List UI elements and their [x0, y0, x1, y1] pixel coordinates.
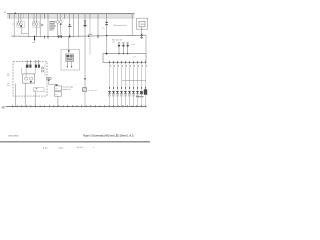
LED pin number labels	[110, 65, 147, 66]
vertical label strip	[44, 64, 46, 76]
pedal stub 2 arrow	[71, 66, 73, 68]
wire to S2 a	[33, 14, 35, 23]
wire color legend line 4	[49, 27, 54, 29]
ground G2 bar 1	[140, 37, 143, 39]
junction tick J0a	[44, 36, 46, 39]
junction dot pedal top	[68, 50, 70, 52]
fuse F1 bottom bar	[83, 25, 86, 27]
connector pin P1 arrow	[34, 39, 36, 41]
solenoid Y2 lead	[122, 43, 124, 54]
LED diodes row	[108, 91, 143, 94]
junction tick J1	[58, 35, 60, 37]
switch S2 contact b	[35, 23, 38, 26]
junction tick J2	[60, 35, 62, 37]
mid rail long wire	[11, 35, 146, 36]
ground bus line	[6, 106, 147, 108]
connector block on PCB	[56, 84, 58, 86]
junction tick J4	[88, 35, 90, 37]
relay K1 coil b	[30, 77, 33, 80]
switch S2 contact a	[33, 23, 36, 26]
fuse F1 tick	[84, 26, 86, 28]
fuse block pad 4	[38, 65, 40, 68]
wire drop x40	[39, 14, 41, 38]
svg-text:xxx: xxx	[7, 73, 10, 75]
svg-text:xxx: xxx	[7, 75, 10, 77]
svg-text:xxx: xxx	[55, 88, 58, 90]
solenoid Y3 plate	[127, 45, 129, 47]
wire to S1 b	[20, 14, 22, 23]
svg-text:TS10: TS10	[140, 24, 145, 26]
solenoid Y1 plate	[118, 45, 120, 47]
wire pad1 down	[25, 68, 27, 77]
pedal stub 2	[71, 61, 73, 66]
svg-text:xxx: xxx	[7, 85, 10, 87]
svg-text:xx: xx	[44, 91, 46, 93]
pedal unit box	[61, 50, 80, 70]
junction dot S3	[60, 24, 62, 26]
chevron arrows 2	[41, 70, 44, 72]
junction dot rail x106	[106, 35, 107, 36]
connector X1 circle b	[49, 77, 51, 79]
fuse block pad 1	[26, 65, 29, 68]
solenoid Y3 lead	[127, 43, 129, 54]
crossing wire right	[122, 79, 146, 81]
power bus shaded band	[7, 14, 135, 18]
wire to S1 a	[17, 14, 19, 23]
wire drop x73	[73, 14, 75, 38]
svg-text:xxxx: xxxx	[133, 56, 136, 58]
LED labels row	[108, 95, 139, 97]
LED second right blob	[140, 91, 143, 94]
svg-text:x 4 x 5: x 4 x 5	[77, 147, 84, 149]
regulator dark pad 3	[67, 58, 73, 60]
svg-text:xxxx: xxxx	[32, 42, 35, 44]
LED junction ticks	[110, 87, 146, 88]
wire to S2 b	[36, 14, 38, 23]
solenoid Y1 top bar	[118, 42, 120, 44]
wire stub x44	[44, 14, 46, 19]
wire drop x85 long	[84, 14, 86, 88]
wire to S3 a	[57, 14, 59, 21]
ground G1 arrow	[69, 24, 71, 26]
junction dot node B	[141, 34, 143, 36]
connector X1 circle a	[46, 77, 48, 79]
svg-text:x: x	[75, 84, 76, 86]
wire from S2 down	[36, 26, 38, 38]
connector housing box	[137, 18, 148, 29]
wire from S3 b down	[60, 24, 62, 38]
relay K1 coil a	[25, 77, 28, 80]
wire drop x90	[89, 14, 91, 55]
svg-text:PE: PE	[2, 106, 6, 109]
wire buzzer to ground bus	[84, 91, 86, 106]
buzzer H1 hatch	[83, 88, 86, 91]
svg-text:xxx xxxx xx: xxx xxxx xx	[88, 90, 97, 92]
wire color legend line 5	[49, 29, 54, 31]
wire drop x48	[47, 14, 49, 38]
ground bus hatch ticks	[13, 105, 146, 107]
LED label bar right	[136, 95, 144, 98]
power bus band lower edge	[7, 17, 135, 19]
svg-text:xxx: xxx	[12, 24, 15, 26]
regulator dark pad 1	[67, 55, 70, 57]
footer rule	[0, 140, 150, 143]
ground G1 bar	[68, 25, 71, 27]
svg-text:xxx: xxx	[7, 83, 10, 85]
fuse F1 top bar	[84, 20, 87, 22]
wire pad3 down	[34, 68, 36, 74]
wire PCB to ground bus	[57, 96, 59, 106]
svg-text:208 00918: 208 00918	[8, 136, 19, 138]
wire to S3 b	[60, 14, 62, 21]
wire drop x78	[77, 14, 79, 38]
svg-text:xxx: xxx	[112, 41, 115, 43]
LED cathode bars	[108, 93, 143, 95]
ground G2 bar 2	[141, 38, 143, 40]
junction arrow on bus	[14, 13, 16, 15]
wire label above rail	[89, 33, 93, 35]
wire below pedal box	[68, 36, 70, 53]
capacitor C1 bar 1	[105, 21, 108, 23]
connector pin P1	[34, 36, 36, 40]
svg-text:Figure 5 (Schematic) MID and L: Figure 5 (Schematic) MID and LED (Sheet …	[83, 135, 134, 138]
fuse block pad 3	[35, 65, 37, 68]
junction dot X1	[48, 80, 49, 81]
buzzer H1 body	[83, 88, 87, 92]
svg-text:4 4 x: 4 4 x	[43, 147, 48, 149]
chevron arrows	[41, 67, 44, 69]
wire TS10 to node	[141, 27, 143, 38]
wire X1 to PCB	[49, 80, 57, 86]
switch S1 contact a	[17, 23, 20, 26]
pedal stub 1	[66, 61, 68, 66]
capacitor C1 bar 2	[105, 24, 108, 26]
wire drop x98	[97, 14, 99, 38]
wire stub x64	[63, 14, 65, 19]
junction tick J0b	[47, 36, 49, 39]
svg-text:x xxx: x xxx	[131, 44, 135, 46]
SAM dashed enclosure	[13, 62, 47, 97]
wire drop x134	[131, 14, 133, 36]
wire color legend line 2	[49, 23, 55, 25]
switch S1 outline	[17, 22, 25, 27]
wire stub A	[9, 14, 11, 19]
relay TS10 box	[139, 21, 145, 26]
junction tick J3	[69, 35, 71, 37]
fuse block pad 2	[29, 65, 31, 68]
switch S2 outline	[33, 22, 40, 27]
buzzer arrow	[84, 78, 86, 80]
svg-text:x: x	[93, 147, 94, 149]
junction tick J5	[97, 35, 99, 38]
svg-text:pedal unit: pedal unit	[62, 88, 71, 91]
LED right-most lamp blob	[144, 89, 147, 94]
regulator dark pad 2	[70, 55, 73, 57]
LED array wires	[110, 62, 146, 106]
switch S1 contact b	[20, 23, 23, 26]
junction dot K1	[30, 81, 32, 83]
switch S3 contact b	[59, 21, 62, 24]
solenoid Y3 top bar	[127, 42, 129, 44]
wire drop x69 with ground G1	[69, 14, 71, 37]
svg-text:4: 4	[4, 11, 6, 15]
diode D1 mark	[42, 24, 44, 26]
junction dot S1	[20, 25, 22, 27]
solenoid Y2 top bar	[122, 42, 124, 44]
wire drop x28	[27, 14, 29, 38]
svg-text:Electronic box: Electronic box	[114, 24, 128, 27]
relay K1 box	[23, 74, 35, 83]
wire SAM to bus 1	[14, 84, 16, 107]
wire SAM to bus 2	[24, 83, 26, 107]
pedal stub 1 arrow	[67, 66, 69, 68]
svg-text:xxxx: xxxx	[34, 90, 37, 92]
power bus top line	[7, 13, 135, 15]
regulator module body	[66, 54, 74, 61]
wire color legend line 3	[49, 25, 55, 27]
harness box below SAM	[34, 88, 45, 91]
wire right edge drop	[145, 35, 147, 53]
svg-text:_ xxxx: _ xxxx	[56, 147, 64, 149]
svg-text:xxx: xxx	[102, 27, 105, 29]
fuse F1 body	[84, 21, 86, 25]
wire drop x106 to control box	[106, 14, 108, 54]
wire color legend line 1	[49, 21, 55, 23]
wire harness to bus	[34, 92, 36, 107]
controller U1 box	[103, 54, 146, 63]
PCB module box 1	[55, 86, 62, 91]
fuse pad stubs	[27, 60, 39, 65]
wire from S1 down	[21, 26, 28, 33]
PCB module box 2	[55, 92, 62, 96]
junction dot on U1 top	[106, 53, 108, 55]
solenoid Y2 plate	[122, 45, 124, 47]
switch S3 contact a	[56, 21, 59, 24]
junction dots on U1 top	[118, 53, 119, 54]
band crossing ticks	[10, 14, 133, 18]
relay feed wire left	[20, 68, 22, 74]
wire from S3 a down	[57, 24, 59, 38]
svg-text:xxx: xxx	[55, 94, 58, 96]
wire drop x14	[13, 14, 15, 38]
solenoid Y1 lead	[118, 43, 120, 54]
LED array pin ticks	[110, 61, 146, 63]
